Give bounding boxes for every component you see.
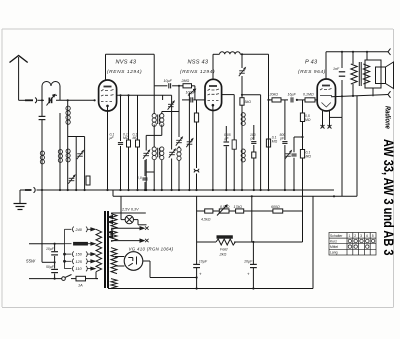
svg-text:10µF: 10µF — [199, 260, 208, 264]
svg-text:Kurz: Kurz — [330, 240, 337, 244]
svg-text:MΩ: MΩ — [306, 154, 312, 158]
svg-text:4: 4 — [366, 234, 368, 238]
svg-text:+: + — [199, 272, 202, 277]
svg-text:2: 2 — [354, 234, 356, 238]
svg-text:Schalter: Schalter — [330, 234, 343, 238]
svg-text:240: 240 — [75, 228, 83, 232]
svg-text:2,5V 6,3V: 2,5V 6,3V — [121, 208, 139, 212]
svg-text:10µF: 10µF — [164, 79, 173, 83]
svg-text:Mittel: Mittel — [330, 245, 338, 249]
svg-text:pF: pF — [279, 137, 285, 141]
svg-text:5kΩ: 5kΩ — [245, 100, 252, 104]
svg-text:4,5kΩ: 4,5kΩ — [201, 218, 211, 222]
svg-text:Lang: Lang — [330, 251, 338, 255]
svg-text:pF: pF — [250, 137, 256, 141]
svg-text:VG 410 (RGN 1064): VG 410 (RGN 1064) — [129, 247, 174, 252]
svg-text:0,1MΩ: 0,1MΩ — [303, 92, 314, 96]
svg-text:110: 110 — [76, 267, 83, 271]
svg-text:100pF: 100pF — [186, 91, 197, 95]
svg-text:10µF: 10µF — [244, 260, 253, 264]
svg-text:µF: µF — [110, 136, 115, 140]
svg-text:Radione: Radione — [383, 106, 391, 129]
svg-text:125: 125 — [76, 260, 83, 264]
svg-text:3: 3 — [360, 234, 362, 238]
svg-text:(RES 964): (RES 964) — [298, 69, 326, 75]
svg-text:5: 5 — [372, 234, 374, 238]
svg-text:0,5kΩ: 0,5kΩ — [220, 205, 230, 209]
svg-text:(RENS 1294): (RENS 1294) — [107, 69, 142, 75]
svg-text:1A: 1A — [78, 284, 83, 288]
svg-text:+: + — [247, 272, 250, 277]
svg-text:2MΩ: 2MΩ — [181, 79, 190, 83]
svg-text:20kΩ: 20kΩ — [269, 92, 279, 96]
svg-text:600Ω: 600Ω — [271, 205, 280, 209]
svg-text:Feld: Feld — [220, 248, 228, 252]
svg-text:17kΩ: 17kΩ — [234, 205, 243, 209]
svg-text:MΩ: MΩ — [133, 136, 139, 140]
svg-text:MΩ: MΩ — [123, 136, 129, 140]
svg-text:NVS 43: NVS 43 — [116, 60, 137, 66]
svg-text:(RENS 1294): (RENS 1294) — [180, 69, 215, 75]
svg-text:NSS 43: NSS 43 — [188, 60, 209, 66]
svg-text:150: 150 — [76, 253, 83, 257]
svg-text:1nF: 1nF — [333, 67, 340, 71]
svg-text:10µF: 10µF — [46, 247, 55, 251]
svg-text:P 43: P 43 — [305, 60, 318, 66]
svg-text:MΩ: MΩ — [272, 139, 278, 143]
svg-text:µF: µF — [225, 137, 230, 141]
svg-text:MΩ: MΩ — [305, 118, 311, 122]
svg-text:AW 33, AW 3 und AB 3: AW 33, AW 3 und AB 3 — [380, 139, 396, 255]
svg-text:1: 1 — [349, 234, 351, 238]
svg-text:55W: 55W — [26, 259, 36, 264]
svg-text:50µF: 50µF — [46, 265, 55, 269]
svg-text:2kΩ: 2kΩ — [219, 253, 227, 257]
svg-text:16µF: 16µF — [288, 92, 297, 96]
svg-text:1,0: 1,0 — [137, 176, 142, 180]
